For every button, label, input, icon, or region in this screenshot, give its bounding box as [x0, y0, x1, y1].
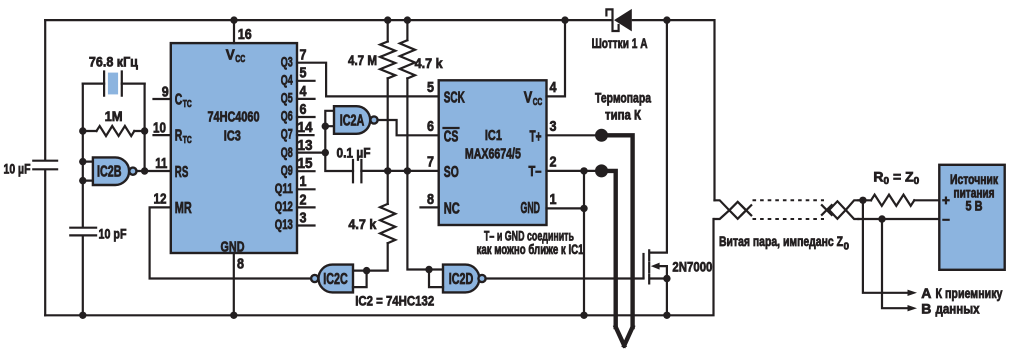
svg-text:TC: TC — [183, 135, 192, 146]
svg-text:GND: GND — [521, 200, 541, 217]
svg-text:V: V — [524, 90, 533, 107]
wire IC2A output to CS — [378, 120, 439, 135]
svg-text:SO: SO — [444, 164, 459, 181]
power source 5V box — [939, 165, 1004, 270]
wire IC2B output to RS pin11 — [137, 170, 171, 172]
wire T- pin2 — [547, 170, 602, 172]
wire right oscillator bus — [144, 84, 146, 171]
svg-text:76.8 кГц: 76.8 кГц — [89, 53, 138, 69]
svg-text:2: 2 — [300, 191, 307, 208]
op-gate IC2B NAND — [93, 157, 137, 185]
svg-text:4: 4 — [550, 79, 558, 96]
svg-text:IC3: IC3 — [224, 128, 241, 145]
wire T+ pin3 — [547, 134, 602, 136]
svg-text:Q5: Q5 — [281, 90, 293, 106]
svg-text:TC: TC — [183, 99, 192, 110]
svg-text:V: V — [226, 47, 235, 64]
svg-text:4.7 k: 4.7 k — [348, 216, 376, 232]
svg-text:IC2B: IC2B — [97, 164, 122, 181]
pin stub NC — [421, 206, 439, 208]
svg-text:T+: T+ — [530, 128, 542, 145]
svg-text:10: 10 — [153, 119, 166, 136]
op-gate IC2C NAND mirrored — [311, 265, 353, 293]
resistor 4.7M — [380, 20, 395, 204]
svg-text:7: 7 — [300, 47, 307, 64]
arrow A — [908, 290, 918, 296]
twisted pair right crossover — [822, 200, 859, 219]
arrow B — [908, 305, 918, 311]
twisted pair left crossover — [715, 200, 752, 219]
resistor 4.7k top — [400, 20, 443, 269]
wire top supply rail right segment — [633, 20, 715, 200]
svg-text:4.7 k: 4.7 k — [415, 55, 443, 71]
svg-text:4: 4 — [300, 83, 308, 100]
svg-text:6: 6 — [427, 118, 434, 135]
svg-text:Q4: Q4 — [281, 71, 293, 87]
pin stub 10 RTC — [154, 134, 171, 136]
svg-text:10 pF: 10 pF — [99, 225, 127, 241]
svg-text:Q11: Q11 — [275, 180, 293, 196]
wire 0.1uF to SO — [361, 170, 438, 172]
wire MR pin12 to IC2C output — [150, 207, 311, 278]
wire left rail lower — [44, 170, 46, 315]
wire bottom conductor to source — [858, 218, 939, 220]
wire B branch — [882, 219, 908, 308]
svg-text:5: 5 — [427, 79, 434, 96]
svg-text:11: 11 — [155, 155, 167, 172]
svg-text:R: R — [175, 128, 183, 145]
svg-text:IC1: IC1 — [485, 127, 502, 144]
IC1 MAX6674/5 body — [439, 80, 547, 225]
pin stub 2 — [297, 206, 315, 208]
svg-text:1: 1 — [300, 173, 307, 190]
svg-text:5 В: 5 В — [966, 199, 983, 214]
capacitor 10uF plates — [33, 161, 57, 170]
svg-text:NC: NC — [444, 201, 460, 218]
op-gate IC2A NAND — [334, 106, 378, 134]
svg-text:Q6: Q6 — [281, 108, 293, 124]
wire Q3 pin7 to SCK — [297, 63, 439, 97]
pin stub 1 — [297, 188, 315, 190]
wire pin16 Vcc — [233, 20, 235, 43]
svg-text:2: 2 — [550, 154, 557, 171]
resistor R0 — [871, 195, 914, 206]
svg-text:C: C — [175, 92, 183, 109]
resistor 4.7k bottom — [353, 204, 395, 271]
wire IC2D output to MOSFET gate — [486, 277, 644, 279]
svg-text:2N7000: 2N7000 — [672, 258, 712, 274]
svg-text:5: 5 — [300, 65, 307, 82]
wire top conductor to source — [858, 199, 939, 201]
wire bottom ground rail — [45, 219, 713, 315]
svg-text:4.7 M: 4.7 M — [348, 52, 377, 68]
pin stub 14 — [297, 134, 314, 136]
svg-text:7: 7 — [427, 154, 434, 171]
capacitor 0.1uF — [353, 160, 361, 182]
diode D1 Schottky — [606, 9, 631, 32]
svg-text:CC: CC — [235, 54, 245, 65]
thermocouple type K — [595, 129, 633, 346]
svg-text:GND: GND — [221, 238, 245, 255]
svg-text:1: 1 — [550, 191, 557, 208]
svg-text:A: A — [921, 285, 931, 301]
crystal X1 76.8kHz — [83, 72, 145, 96]
svg-text:–: – — [942, 211, 950, 226]
pin stub 15 — [297, 170, 315, 172]
wire Q8 pin13 to IC2A inputs — [297, 111, 353, 171]
svg-text:B: B — [921, 300, 931, 316]
svg-text:12: 12 — [154, 191, 167, 208]
svg-text:16: 16 — [238, 26, 252, 43]
capacitor 10pF — [70, 228, 96, 236]
svg-text:К приемнику: К приемнику — [936, 285, 1003, 301]
svg-text:10 µF: 10 µF — [4, 161, 31, 177]
svg-text:R0 = Z0: R0 = Z0 — [873, 169, 919, 188]
svg-text:IC2D: IC2D — [449, 271, 474, 288]
svg-text:RS: RS — [175, 164, 189, 181]
svg-text:Витая пара, импеданс Z: Витая пара, импеданс Z — [719, 233, 843, 249]
wire pin8 GND to rail — [233, 253, 235, 315]
svg-text:IC2 = 74HC132: IC2 = 74HC132 — [355, 293, 434, 309]
svg-text:CS: CS — [444, 128, 459, 145]
wire T- to GND to rail — [583, 171, 585, 315]
svg-text:8: 8 — [427, 191, 434, 208]
resistor R 1M — [83, 126, 145, 136]
svg-text:MAX6674/5: MAX6674/5 — [465, 146, 521, 163]
svg-text:Шоттки 1 А: Шоттки 1 А — [592, 35, 648, 51]
wire left rail upper — [44, 20, 46, 160]
twisted pair dashed conductors — [753, 200, 825, 219]
svg-text:Q7: Q7 — [281, 126, 293, 142]
wire GND pin1 — [547, 207, 586, 209]
svg-text:0: 0 — [844, 242, 850, 253]
svg-text:типа К: типа К — [605, 107, 641, 123]
op-gate IC2D NAND — [443, 265, 486, 293]
svg-text:15: 15 — [298, 155, 313, 172]
svg-text:Q12: Q12 — [275, 198, 293, 214]
pin stub 9 CTC — [154, 98, 171, 100]
svg-text:Q3: Q3 — [281, 53, 293, 69]
pin stub 5 — [297, 80, 315, 82]
svg-text:+: + — [942, 193, 950, 208]
svg-text:3: 3 — [550, 118, 557, 135]
svg-text:Q9: Q9 — [281, 162, 293, 178]
svg-text:Термопара: Термопара — [595, 90, 651, 106]
IC3 74HC4060 body — [171, 43, 297, 253]
pin stub 6 — [297, 116, 315, 118]
pin stub 3 — [297, 224, 315, 226]
svg-text:как можно ближе к IC1: как можно ближе к IC1 — [477, 242, 584, 257]
pin stub 4 — [297, 98, 315, 100]
svg-text:CC: CC — [533, 97, 543, 108]
svg-text:6: 6 — [300, 101, 307, 118]
transistor Q1 2N7000 MOSFET — [644, 20, 667, 315]
svg-text:3: 3 — [300, 209, 307, 226]
wire IC2C input branch — [353, 271, 367, 288]
svg-text:0.1 µF: 0.1 µF — [337, 144, 371, 160]
wire A branch — [863, 200, 908, 292]
svg-text:MR: MR — [175, 200, 192, 217]
svg-text:IC2A: IC2A — [340, 113, 365, 130]
svg-text:14: 14 — [298, 119, 314, 136]
svg-text:8: 8 — [237, 256, 244, 273]
svg-text:74HC4060: 74HC4060 — [208, 108, 260, 125]
svg-text:T–: T– — [529, 163, 542, 180]
svg-text:Q8: Q8 — [281, 144, 293, 160]
svg-text:данных: данных — [936, 300, 980, 316]
svg-text:1M: 1M — [105, 108, 123, 124]
wire Vcc pin4 — [547, 20, 566, 96]
svg-text:Q13: Q13 — [275, 216, 293, 232]
svg-text:IC2C: IC2C — [323, 271, 348, 288]
wire IC2D input branch — [429, 270, 443, 288]
wire top supply rail left segment — [45, 19, 611, 21]
svg-text:9: 9 — [162, 83, 169, 100]
wire left oscillator bus — [82, 84, 84, 316]
svg-text:SCK: SCK — [444, 90, 465, 107]
wire IC2B inputs — [83, 162, 93, 181]
